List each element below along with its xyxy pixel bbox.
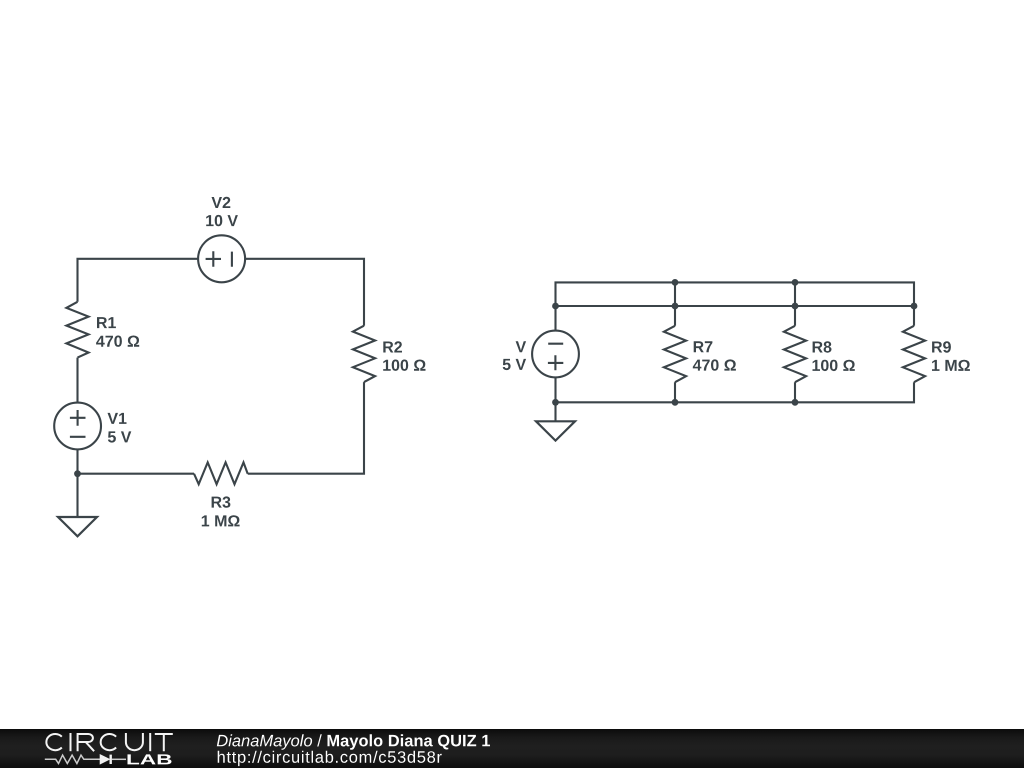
wire R7 lower: [674, 382, 676, 402]
logo wire with resistor zigzag: [45, 755, 126, 763]
label R8: [813, 341, 855, 371]
resistor R2: [353, 326, 375, 382]
wire R8 column upper: [794, 282, 796, 326]
label R9: [932, 341, 970, 371]
CircuitLab logo: [40, 729, 185, 768]
label R1: [96, 317, 139, 347]
wire R8 lower: [794, 382, 796, 402]
label R3: [202, 496, 240, 526]
footer title text: [217, 734, 490, 749]
node R8 second rail: [792, 303, 799, 310]
resistor R1: [66, 302, 88, 358]
wire R3 to bottom-right corner up to R2: [248, 382, 364, 474]
label V: [503, 341, 526, 370]
logo word CIRCUIT: [46, 733, 172, 751]
wire second rail of parallel circuit: [556, 305, 915, 307]
resistor R7: [664, 326, 686, 382]
node R9 second rail: [911, 303, 918, 310]
wire top-left from V2 left terminal down to R1: [78, 259, 199, 302]
wire ground stem left: [76, 474, 78, 517]
ground symbol left: [58, 517, 97, 536]
voltage source V: [532, 331, 579, 378]
label V1: [108, 413, 132, 443]
node R8 top rail: [792, 279, 799, 286]
node junction bottom-left: [74, 470, 81, 477]
resistor R9: [903, 326, 925, 382]
wire R7 column upper: [674, 282, 676, 326]
label R2: [383, 341, 425, 371]
wire top rail of parallel circuit: [556, 282, 915, 330]
logo diode: [100, 755, 111, 764]
voltage source V1: [54, 403, 101, 450]
footer bar: [0, 729, 1024, 768]
logo LAB text: [128, 754, 172, 764]
wire ground stem right: [554, 402, 556, 421]
node R7 bottom rail: [672, 399, 679, 406]
voltage source V2: [198, 235, 245, 282]
wire V bottom to node: [554, 377, 556, 402]
ground symbol right: [536, 421, 575, 440]
resistor R8: [784, 326, 806, 382]
node R7 top rail: [672, 279, 679, 286]
footer url text: [218, 751, 442, 766]
resistor R3: [194, 462, 248, 484]
label V2: [206, 197, 238, 227]
node V column on second rail: [552, 303, 559, 310]
node R7 second rail: [672, 303, 679, 310]
node V column on bottom rail: [552, 399, 559, 406]
wire bottom-left to R3: [78, 473, 195, 475]
wire between R1 and V1: [76, 358, 78, 403]
label R7: [693, 341, 736, 371]
wire bottom rail of parallel circuit: [556, 382, 915, 402]
wire V1 bottom to node: [76, 449, 78, 473]
wire top-right from V2 right terminal to R2: [245, 259, 364, 326]
node R8 bottom rail: [792, 399, 799, 406]
